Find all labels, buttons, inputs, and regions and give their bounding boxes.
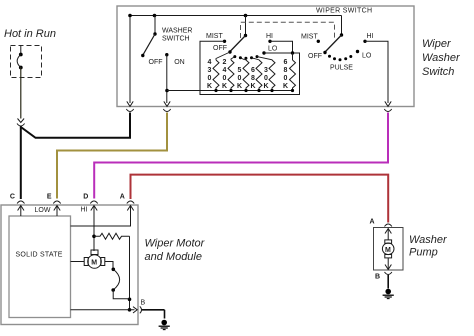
svg-text:Washer: Washer <box>409 234 448 246</box>
svg-text:0: 0 <box>223 75 227 82</box>
svg-text:0: 0 <box>264 75 268 82</box>
svg-text:HI: HI <box>81 207 88 214</box>
svg-text:LO: LO <box>362 53 372 60</box>
svg-text:M: M <box>385 247 391 254</box>
svg-text:SWITCH: SWITCH <box>162 36 190 43</box>
svg-text:K: K <box>283 83 288 90</box>
svg-text:0: 0 <box>208 75 212 82</box>
svg-text:K: K <box>250 83 255 90</box>
svg-text:6: 6 <box>284 59 288 66</box>
svg-text:0: 0 <box>238 75 242 82</box>
svg-text:2: 2 <box>223 59 227 66</box>
svg-text:A: A <box>370 219 375 226</box>
svg-text:MIST: MIST <box>206 33 223 40</box>
svg-text:K: K <box>237 83 242 90</box>
svg-text:B: B <box>375 274 380 281</box>
svg-text:and Module: and Module <box>145 251 203 263</box>
svg-text:E: E <box>47 194 52 201</box>
svg-text:3: 3 <box>208 67 212 74</box>
svg-text:K: K <box>263 83 268 90</box>
svg-text:A: A <box>120 194 125 201</box>
svg-text:5: 5 <box>238 67 242 74</box>
svg-text:Hot in Run: Hot in Run <box>4 28 56 40</box>
svg-text:WIPER SWITCH: WIPER SWITCH <box>316 8 372 15</box>
svg-text:Switch: Switch <box>422 66 454 78</box>
svg-text:OFF: OFF <box>213 45 227 52</box>
svg-text:LO: LO <box>268 46 278 53</box>
svg-text:SOLID STATE: SOLID STATE <box>16 252 63 259</box>
svg-text:K: K <box>222 83 227 90</box>
svg-text:HI: HI <box>266 33 273 40</box>
svg-text:MIST: MIST <box>301 34 318 41</box>
svg-text:K: K <box>207 83 212 90</box>
svg-text:8: 8 <box>284 67 288 74</box>
svg-text:Wiper: Wiper <box>422 38 452 50</box>
svg-text:B: B <box>141 300 146 307</box>
svg-text:M: M <box>91 260 97 267</box>
svg-text:OFF: OFF <box>308 53 322 60</box>
svg-text:ON: ON <box>174 59 185 66</box>
svg-text:OFF: OFF <box>149 59 163 66</box>
svg-text:PULSE: PULSE <box>330 65 353 72</box>
svg-text:8: 8 <box>251 75 255 82</box>
svg-text:Pump: Pump <box>409 247 438 259</box>
svg-text:WASHER: WASHER <box>162 28 192 35</box>
svg-text:Wiper Motor: Wiper Motor <box>145 238 206 250</box>
svg-text:D: D <box>83 194 88 201</box>
svg-text:LOW: LOW <box>35 207 51 214</box>
svg-text:HI: HI <box>367 33 374 40</box>
svg-text:4: 4 <box>208 59 212 66</box>
svg-text:3: 3 <box>264 67 268 74</box>
svg-text:Washer: Washer <box>422 52 461 64</box>
svg-text:6: 6 <box>251 67 255 74</box>
svg-text:C: C <box>10 194 15 201</box>
svg-text:0: 0 <box>284 75 288 82</box>
svg-text:4: 4 <box>223 67 227 74</box>
